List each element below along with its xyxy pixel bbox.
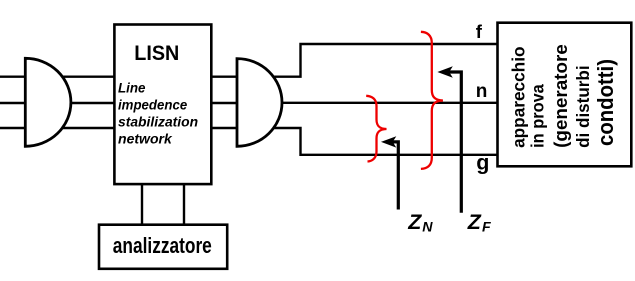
wire LISN to analizzatore right [183,184,185,225]
svg-text:g: g [476,151,489,175]
label LISN [134,41,179,65]
wire mains input phase 1 [0,75,114,77]
label analizzatore [113,233,212,258]
connector plug left (D-shape) [25,58,71,146]
LISN box [114,25,211,185]
svg-text:stabilization: stabilization [118,114,198,129]
wire LISN to connector 2, line g [211,127,237,129]
arrow ZN (stem and head) [381,136,398,209]
wire mains input phase 3 [0,127,114,129]
svg-text:impedence: impedence [118,98,188,113]
label ZF [467,210,491,235]
wire mains input phase 2 [0,102,114,104]
node label f [476,21,483,42]
node label g [476,151,489,175]
brace red small (n to g span) [366,96,386,162]
svg-text:f: f [476,21,483,42]
wire n straight to apparecchio [250,102,498,104]
svg-text:network: network [118,131,172,146]
wire LISN to connector 2, line n [211,102,237,104]
node label n [476,81,488,102]
connector plug middle (D-shape) [237,59,282,147]
svg-text:Z: Z [467,210,482,234]
svg-text:F: F [482,220,491,236]
wire LISN to analizzatore left [141,184,143,225]
wire f from connector 2 with step up [250,44,498,77]
svg-text:apparecchio: apparecchio [509,46,529,147]
wire g from connector 2 with step down [250,128,498,155]
svg-text:Z: Z [407,210,422,234]
brace red large (f to g span) [421,32,443,169]
label ZN [407,210,433,235]
svg-text:di disturbi: di disturbi [573,65,593,148]
label apparecchio in prova (generatore di disturbi condotti), rotated [509,44,619,148]
svg-text:in prova: in prova [528,84,548,148]
svg-text:condotti): condotti) [593,59,618,146]
svg-text:n: n [476,81,488,102]
svg-text:LISN: LISN [134,41,179,65]
svg-text:analizzatore: analizzatore [113,233,212,258]
wire LISN to connector 2, line f [211,75,237,77]
svg-text:(generatore: (generatore [551,44,571,148]
arrow ZF (stem and head) [437,66,461,212]
analizzatore box [99,225,227,269]
apparecchio in prova box [498,23,632,167]
label Line impedence stabilization network [118,80,198,146]
svg-text:Line: Line [118,80,146,95]
svg-text:N: N [422,220,433,236]
